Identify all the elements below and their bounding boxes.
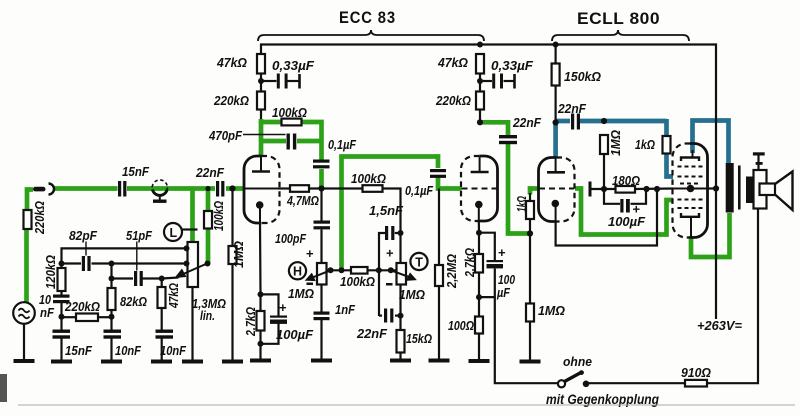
- svg-text:22nF: 22nF: [195, 166, 224, 180]
- wire 180R line: [592, 188, 616, 190]
- capacitor 0.1uF no2: [430, 169, 446, 172]
- wire green below 0.1uF no2 into tube2 grid: [438, 177, 462, 189]
- ground 15k: [390, 359, 411, 363]
- resistor 180R: [616, 186, 636, 193]
- svg-text:µF: µF: [496, 286, 510, 300]
- svg-text:220kΩ: 220kΩ: [64, 300, 100, 314]
- potentiometer T arrow: [391, 270, 415, 280]
- ground 1nF: [311, 359, 332, 363]
- capacitor 15nF bypass: [53, 330, 71, 333]
- svg-text:ECC 83: ECC 83: [339, 8, 396, 27]
- node tube2 plate: [477, 119, 483, 125]
- svg-text:ohne: ohne: [563, 355, 592, 369]
- wire green output tube bottom to transformer: [691, 213, 730, 257]
- ground 1M tube1: [222, 360, 243, 364]
- capacitor 470pF: [287, 134, 290, 150]
- resistor 2.2M grid leak tube2: [435, 265, 443, 286]
- wire third line 51pF: [112, 264, 134, 279]
- GREEN-LAYER: [27, 119, 730, 303]
- wire filter top line: [62, 248, 188, 263]
- capacitor 10nF series: [53, 295, 70, 298]
- wire tube1 grid to 4.7M: [278, 187, 290, 189]
- node blue 1M: [601, 118, 607, 124]
- node 1.5nF: [398, 230, 404, 236]
- bracket ECC83: [258, 30, 484, 41]
- ground 10nF1: [101, 360, 122, 364]
- tube V2 grid: [462, 188, 498, 190]
- potentiometer T bass 1M: [397, 263, 407, 285]
- wire speaker top terminal: [757, 155, 759, 170]
- svg-text:0,1µF: 0,1µF: [405, 184, 433, 198]
- potentiometer H arrow: [307, 270, 331, 280]
- wire green tube2 plate to 22nF: [480, 122, 508, 135]
- capacitor 100pF: [314, 221, 331, 224]
- svg-text:+: +: [279, 300, 287, 315]
- wire 0.33uF2 leads: [480, 80, 492, 82]
- node HT-line a: [328, 267, 334, 273]
- wire H-T line: [327, 269, 352, 271]
- tube V3 ECLL800 triode envelope: [539, 158, 575, 222]
- svg-text:T: T: [415, 255, 423, 269]
- node 47k1-0.33: [258, 78, 264, 84]
- label minus H pot: [307, 283, 314, 286]
- wire 1.5nF right vert to T pot: [399, 233, 401, 263]
- resistor 2.7k tube2 cathode: [475, 254, 483, 273]
- source AC generator: [13, 302, 35, 324]
- resistor 47k no2: [476, 54, 484, 74]
- ground volume pot: [182, 360, 203, 364]
- wire blue feedback bus: [556, 119, 570, 124]
- wire green 470p link: [261, 139, 286, 144]
- tube V3 cathode: [552, 200, 560, 208]
- resistor 120k: [58, 268, 66, 291]
- capacitor 0.1uF no1: [313, 160, 330, 163]
- svg-text:4,7MΩ: 4,7MΩ: [286, 194, 319, 208]
- resistor 4.7M: [290, 185, 309, 192]
- CAPACITORS: [53, 74, 630, 339]
- capacitor 0.33uF no2: [492, 74, 495, 89]
- svg-text:H: H: [293, 265, 302, 279]
- wire rail to 150k: [554, 45, 556, 65]
- switch feedback: [558, 380, 565, 387]
- svg-text:1,5nF: 1,5nF: [369, 204, 403, 218]
- svg-text:47kΩ: 47kΩ: [216, 56, 247, 70]
- wire L label tick: [182, 228, 198, 230]
- capacitor 10nF bypass2: [156, 330, 174, 333]
- svg-text:180Ω: 180Ω: [612, 174, 640, 188]
- wire 150k to blue node: [554, 86, 556, 123]
- tube V1 grid: [244, 188, 278, 190]
- capacitor 100uF ecll electrolytic: [620, 199, 623, 213]
- node blue 150k: [553, 119, 559, 125]
- capacitor 22nF feedback: [571, 114, 574, 130]
- wire 4.7M to 0.1uF junction: [309, 187, 363, 189]
- node filter F: [109, 261, 115, 267]
- resistor 100k volume wiper: [204, 211, 212, 229]
- svg-text:470pF: 470pF: [208, 129, 242, 143]
- svg-text:2,7kΩ: 2,7kΩ: [244, 307, 258, 337]
- label circle L: [164, 223, 182, 241]
- node filter A: [59, 261, 65, 267]
- node filter B: [59, 314, 65, 320]
- tube V4 plate lead top: [692, 150, 694, 158]
- wire green 22nF down to 1k link: [508, 143, 530, 234]
- svg-text:1MΩ: 1MΩ: [232, 241, 246, 268]
- wire 1.5nF left corner down: [395, 232, 401, 234]
- svg-text:+263V=: +263V=: [697, 319, 743, 333]
- svg-text:220kΩ: 220kΩ: [435, 94, 471, 108]
- node L pot mid tap: [184, 261, 190, 267]
- wire green plate node chain tube1: [259, 119, 264, 157]
- lower-left filter network wires: [24, 135, 286, 361]
- terminal bar 1M2: [589, 182, 592, 197]
- svg-text:100µF: 100µF: [276, 328, 313, 342]
- wire filter second line: [62, 262, 82, 264]
- wire blue after 22nF2 to transformer: [579, 119, 667, 124]
- wire volume pot bottom to ground: [191, 287, 193, 360]
- wire 100uF2 loop: [604, 189, 620, 204]
- tube V4 anode bar top: [681, 158, 699, 162]
- wire 1M ecll grid leak: [529, 234, 531, 304]
- resistor 47k lower-left: [158, 287, 166, 308]
- svg-text:+: +: [386, 246, 394, 261]
- wire green tone output detour: [342, 157, 439, 271]
- svg-text:+: +: [498, 245, 506, 260]
- svg-text:nF: nF: [40, 306, 54, 320]
- node 180R b: [643, 186, 649, 192]
- wire switch to 910R: [588, 382, 685, 384]
- transformer primary: [726, 163, 734, 213]
- resistor 1M ecll grid leak: [526, 304, 534, 322]
- svg-text:120kΩ: 120kΩ: [44, 255, 58, 289]
- BLUE-LAYER: [556, 119, 729, 177]
- ground source: [14, 359, 35, 363]
- wire green below 0.1uF no1 to grid junction: [319, 169, 324, 189]
- wire green after plug to volume branch: [54, 186, 118, 191]
- wire green input line: [27, 190, 33, 211]
- capacitor 15nF input: [118, 181, 121, 197]
- wire green 220k to source: [24, 229, 29, 303]
- svg-text:1MΩ: 1MΩ: [288, 287, 314, 301]
- svg-text:15nF: 15nF: [122, 165, 149, 179]
- svg-text:47kΩ: 47kΩ: [167, 283, 181, 309]
- ground 100R: [469, 359, 490, 363]
- svg-text:220kΩ: 220kΩ: [213, 94, 249, 108]
- svg-text:10nF: 10nF: [160, 344, 186, 358]
- node rail 150k: [553, 42, 559, 48]
- wire green below 100k to wiper hook: [206, 229, 211, 264]
- wire 1k1 link: [529, 219, 531, 234]
- resistor 100k plate link: [282, 119, 302, 126]
- tube V1 plate: [252, 157, 270, 172]
- resistor 82k: [108, 288, 116, 310]
- wire 22nF3 line: [379, 315, 382, 317]
- svg-text:100µF: 100µF: [608, 215, 645, 229]
- wire T pot bottom to 15k to ground: [399, 285, 401, 331]
- RESISTORS: [24, 54, 708, 387]
- ground tube1 cathode: [250, 359, 271, 363]
- wire green 1k to tube3 grid: [530, 189, 539, 195]
- wire source bottom to ground: [23, 324, 25, 361]
- transformer core: [738, 166, 741, 210]
- capacitor 51pF: [134, 271, 137, 286]
- scan artifact left edge blob: [0, 374, 7, 402]
- svg-text:10nF: 10nF: [115, 344, 141, 358]
- node HT-line c: [376, 267, 382, 273]
- resistor 2.7k tube1 cathode: [257, 311, 265, 331]
- resistor 1k grid stopper: [526, 201, 534, 219]
- node +263 cross: [713, 185, 719, 191]
- node filter C: [109, 314, 115, 320]
- tube V4 ECLL800 output pentodes envelope: [673, 144, 708, 238]
- svg-text:22nF: 22nF: [356, 327, 387, 341]
- svg-text:lin.: lin.: [200, 309, 215, 323]
- scan artifact bottom rule: [18, 404, 795, 406]
- ground 10nF2: [151, 360, 172, 364]
- node cathode2 top: [476, 230, 482, 236]
- resistor 1M feedback divider: [600, 135, 608, 154]
- svg-text:51pF: 51pF: [126, 229, 152, 243]
- node grid junction 0.1uF1: [318, 185, 324, 191]
- wire 47k0 chain: [161, 308, 163, 330]
- svg-text:1MΩ: 1MΩ: [609, 130, 623, 156]
- capacitor 100uF tube1 electrolytic: [270, 316, 287, 318]
- wire blue 150k node to 22nF2: [553, 123, 558, 157]
- capacitor 22nF input: [216, 181, 219, 197]
- loudspeaker driver: [760, 184, 776, 196]
- capacitor 10nF bypass1: [104, 330, 122, 333]
- wire 100R to ground: [478, 297, 480, 316]
- wire grid junction to 100pF: [320, 189, 322, 221]
- wire 100k2 to 1.5nF corner: [383, 189, 401, 234]
- capacitor 22nF tone: [384, 309, 387, 323]
- wire 100pF to H pot: [320, 230, 322, 264]
- svg-text:ECLL 800: ECLL 800: [577, 9, 660, 28]
- ground 2.2M: [429, 359, 450, 363]
- svg-text:82pF: 82pF: [69, 229, 97, 243]
- svg-text:0,33µF: 0,33µF: [272, 59, 314, 73]
- capacitor 100uF tube2 electrolytic: [487, 260, 504, 262]
- svg-text:22nF: 22nF: [557, 102, 586, 116]
- capacitor 0.33uF no1: [277, 74, 280, 89]
- node 180R a: [601, 186, 607, 192]
- label circle T: [410, 253, 427, 270]
- svg-text:1kΩ: 1kΩ: [515, 196, 529, 212]
- svg-text:2,2MΩ: 2,2MΩ: [445, 254, 459, 289]
- ground 15nF: [51, 360, 72, 364]
- wire green 22nF to tube1 grid: [226, 186, 244, 191]
- node filter E: [159, 276, 165, 282]
- loudspeaker horn: [775, 172, 793, 211]
- node 47k2-0.33: [477, 78, 483, 84]
- shield screen symbol: [152, 180, 167, 200]
- wire 120k chain: [60, 264, 62, 269]
- wire 220k2 bottom to plate node: [479, 110, 481, 122]
- tube V3 grid: [539, 188, 574, 190]
- wire tap line to arrow: [162, 278, 179, 279]
- svg-text:0,1µF: 0,1µF: [328, 138, 356, 152]
- node L pot top tap: [184, 245, 190, 251]
- resistor 47k no1: [257, 54, 265, 74]
- svg-text:1kΩ: 1kΩ: [635, 138, 655, 152]
- capacitor 22nF coupling tube2: [499, 135, 517, 138]
- wire 51pF leader: [136, 242, 138, 271]
- wire 220k0 node: [62, 316, 77, 318]
- node 22n3: [398, 313, 404, 319]
- wire blue staple plate to transformer: [693, 121, 729, 165]
- wire 910R to speaker: [707, 209, 758, 383]
- GROUNDS: [14, 359, 541, 364]
- wire output tube cathode line to +263: [708, 187, 717, 189]
- node cathode1 top: [258, 291, 264, 297]
- loudspeaker top terminal: [753, 152, 765, 155]
- tube V4 bottom lead: [690, 217, 692, 237]
- svg-text:100: 100: [498, 273, 515, 287]
- svg-text:L: L: [170, 226, 178, 240]
- svg-text:100kΩ: 100kΩ: [340, 275, 375, 289]
- node filter D: [109, 276, 115, 282]
- resistor 910R: [685, 380, 707, 387]
- wire tube2 cathode chain: [478, 221, 480, 233]
- resistor 220k horizontal lower-left: [76, 314, 98, 322]
- svg-text:0,33µF: 0,33µF: [491, 59, 533, 73]
- svg-text:47kΩ: 47kΩ: [437, 56, 468, 70]
- ground 1M ecll: [520, 360, 541, 364]
- wire 47k2 to 220k2: [479, 74, 481, 92]
- svg-text:220kΩ: 220kΩ: [33, 201, 47, 235]
- node L wiper green: [205, 261, 211, 267]
- svg-text:15kΩ: 15kΩ: [406, 332, 432, 346]
- wire feedback down from cathode RC: [495, 297, 559, 383]
- wire tube1 cathode chain: [259, 223, 262, 294]
- tube V1 ECC83 triode a envelope: [244, 156, 280, 223]
- transformer secondary: [746, 177, 754, 204]
- bracket ECLL800: [552, 30, 689, 41]
- potentiometer L volume 1.3M: [188, 242, 199, 287]
- resistor 100k H-T line: [351, 267, 368, 274]
- tube V3 plate: [547, 158, 565, 172]
- svg-text:100kΩ: 100kΩ: [351, 172, 386, 186]
- wire 2.2M grid leak tube2: [438, 189, 440, 266]
- svg-text:1MΩ: 1MΩ: [538, 304, 565, 318]
- node cathode2 bottom: [476, 294, 482, 300]
- node 180R c: [654, 186, 660, 192]
- label circle H: [289, 262, 306, 279]
- node green 22n junction: [205, 186, 210, 191]
- svg-text:100pF: 100pF: [275, 232, 306, 246]
- resistor 220k no1: [257, 92, 265, 110]
- potentiometer H treble 1M: [317, 263, 327, 285]
- svg-text:15nF: 15nF: [65, 344, 92, 358]
- svg-text:2,7kΩ: 2,7kΩ: [463, 248, 477, 278]
- node 1k1 bottom: [527, 230, 533, 236]
- svg-text:+: +: [306, 246, 314, 261]
- node HT-line b: [339, 267, 345, 273]
- wire 0.33uF1 leads: [261, 80, 277, 82]
- tube V2 plate: [471, 157, 489, 172]
- node cathode1 bottom: [258, 341, 264, 347]
- wire blue 1k2 top lead: [664, 119, 669, 136]
- wire 82k chain: [110, 279, 112, 289]
- resistor 1M tube1 grid leak: [229, 246, 237, 264]
- svg-text:10: 10: [39, 293, 51, 307]
- svg-text:22nF: 22nF: [512, 116, 541, 130]
- node 1M0 grid: [229, 185, 235, 191]
- resistor 220k no2: [476, 92, 484, 110]
- label minus T pot: [386, 283, 393, 286]
- wire blue 1k2 bottom into output tube grid: [667, 154, 674, 177]
- tube V2 ECC83 triode b envelope: [461, 156, 498, 221]
- wire green 100k plate link top: [261, 122, 322, 160]
- resistor 100k tone top: [363, 185, 383, 192]
- svg-text:150kΩ: 150kΩ: [564, 70, 601, 84]
- svg-text:100kΩ: 100kΩ: [272, 106, 307, 120]
- wire 15nF to ground: [60, 339, 62, 361]
- resistor 150k: [552, 64, 560, 86]
- capacitor 1nF: [314, 312, 330, 315]
- resistor 220k input: [24, 210, 32, 229]
- wire 470pF leader: [243, 134, 286, 136]
- wire 220k1 bottom: [260, 110, 262, 120]
- svg-text:910Ω: 910Ω: [681, 366, 711, 380]
- tube V1 cathode: [256, 201, 264, 209]
- resistor 1k no2: [663, 136, 671, 154]
- wire green branch down to volume pot top: [190, 189, 195, 243]
- svg-text:1nF: 1nF: [335, 303, 355, 317]
- resistor 100R: [475, 317, 483, 334]
- loudspeaker frame: [754, 170, 767, 209]
- svg-text:82kΩ: 82kΩ: [120, 295, 147, 309]
- potentiometer L wiper arrow: [177, 264, 208, 278]
- capacitor 1.5nF: [385, 226, 388, 240]
- wire 82pF leader: [85, 242, 87, 256]
- wire 1M2 bottom to 180R line: [603, 154, 605, 189]
- svg-text:1MΩ: 1MΩ: [399, 288, 425, 302]
- BLACK-WIRES: [233, 45, 759, 384]
- tube V4 grid rows: [678, 167, 703, 209]
- wire H pot bottom to 1nF: [320, 285, 322, 314]
- svg-text:100kΩ: 100kΩ: [212, 201, 226, 231]
- wire 1M0 grid leak tube1: [231, 189, 233, 247]
- svg-text:100Ω: 100Ω: [448, 319, 474, 333]
- wire green branch through 100k to wiper: [206, 189, 211, 212]
- wire tube3 cathode chain: [556, 189, 657, 246]
- resistor 15k: [397, 330, 405, 353]
- wire green tube3 grid out right: [575, 189, 673, 235]
- tube V4 cathode line: [673, 188, 708, 190]
- tube V4 anode bar bottom: [681, 213, 699, 217]
- node rail 47k2: [477, 42, 483, 48]
- input plug: [33, 187, 46, 192]
- wire supply rail: [261, 45, 716, 320]
- tube V2 cathode: [475, 201, 483, 209]
- wire 47k1 to 220k1: [260, 74, 262, 92]
- capacitor 82pF: [82, 256, 85, 271]
